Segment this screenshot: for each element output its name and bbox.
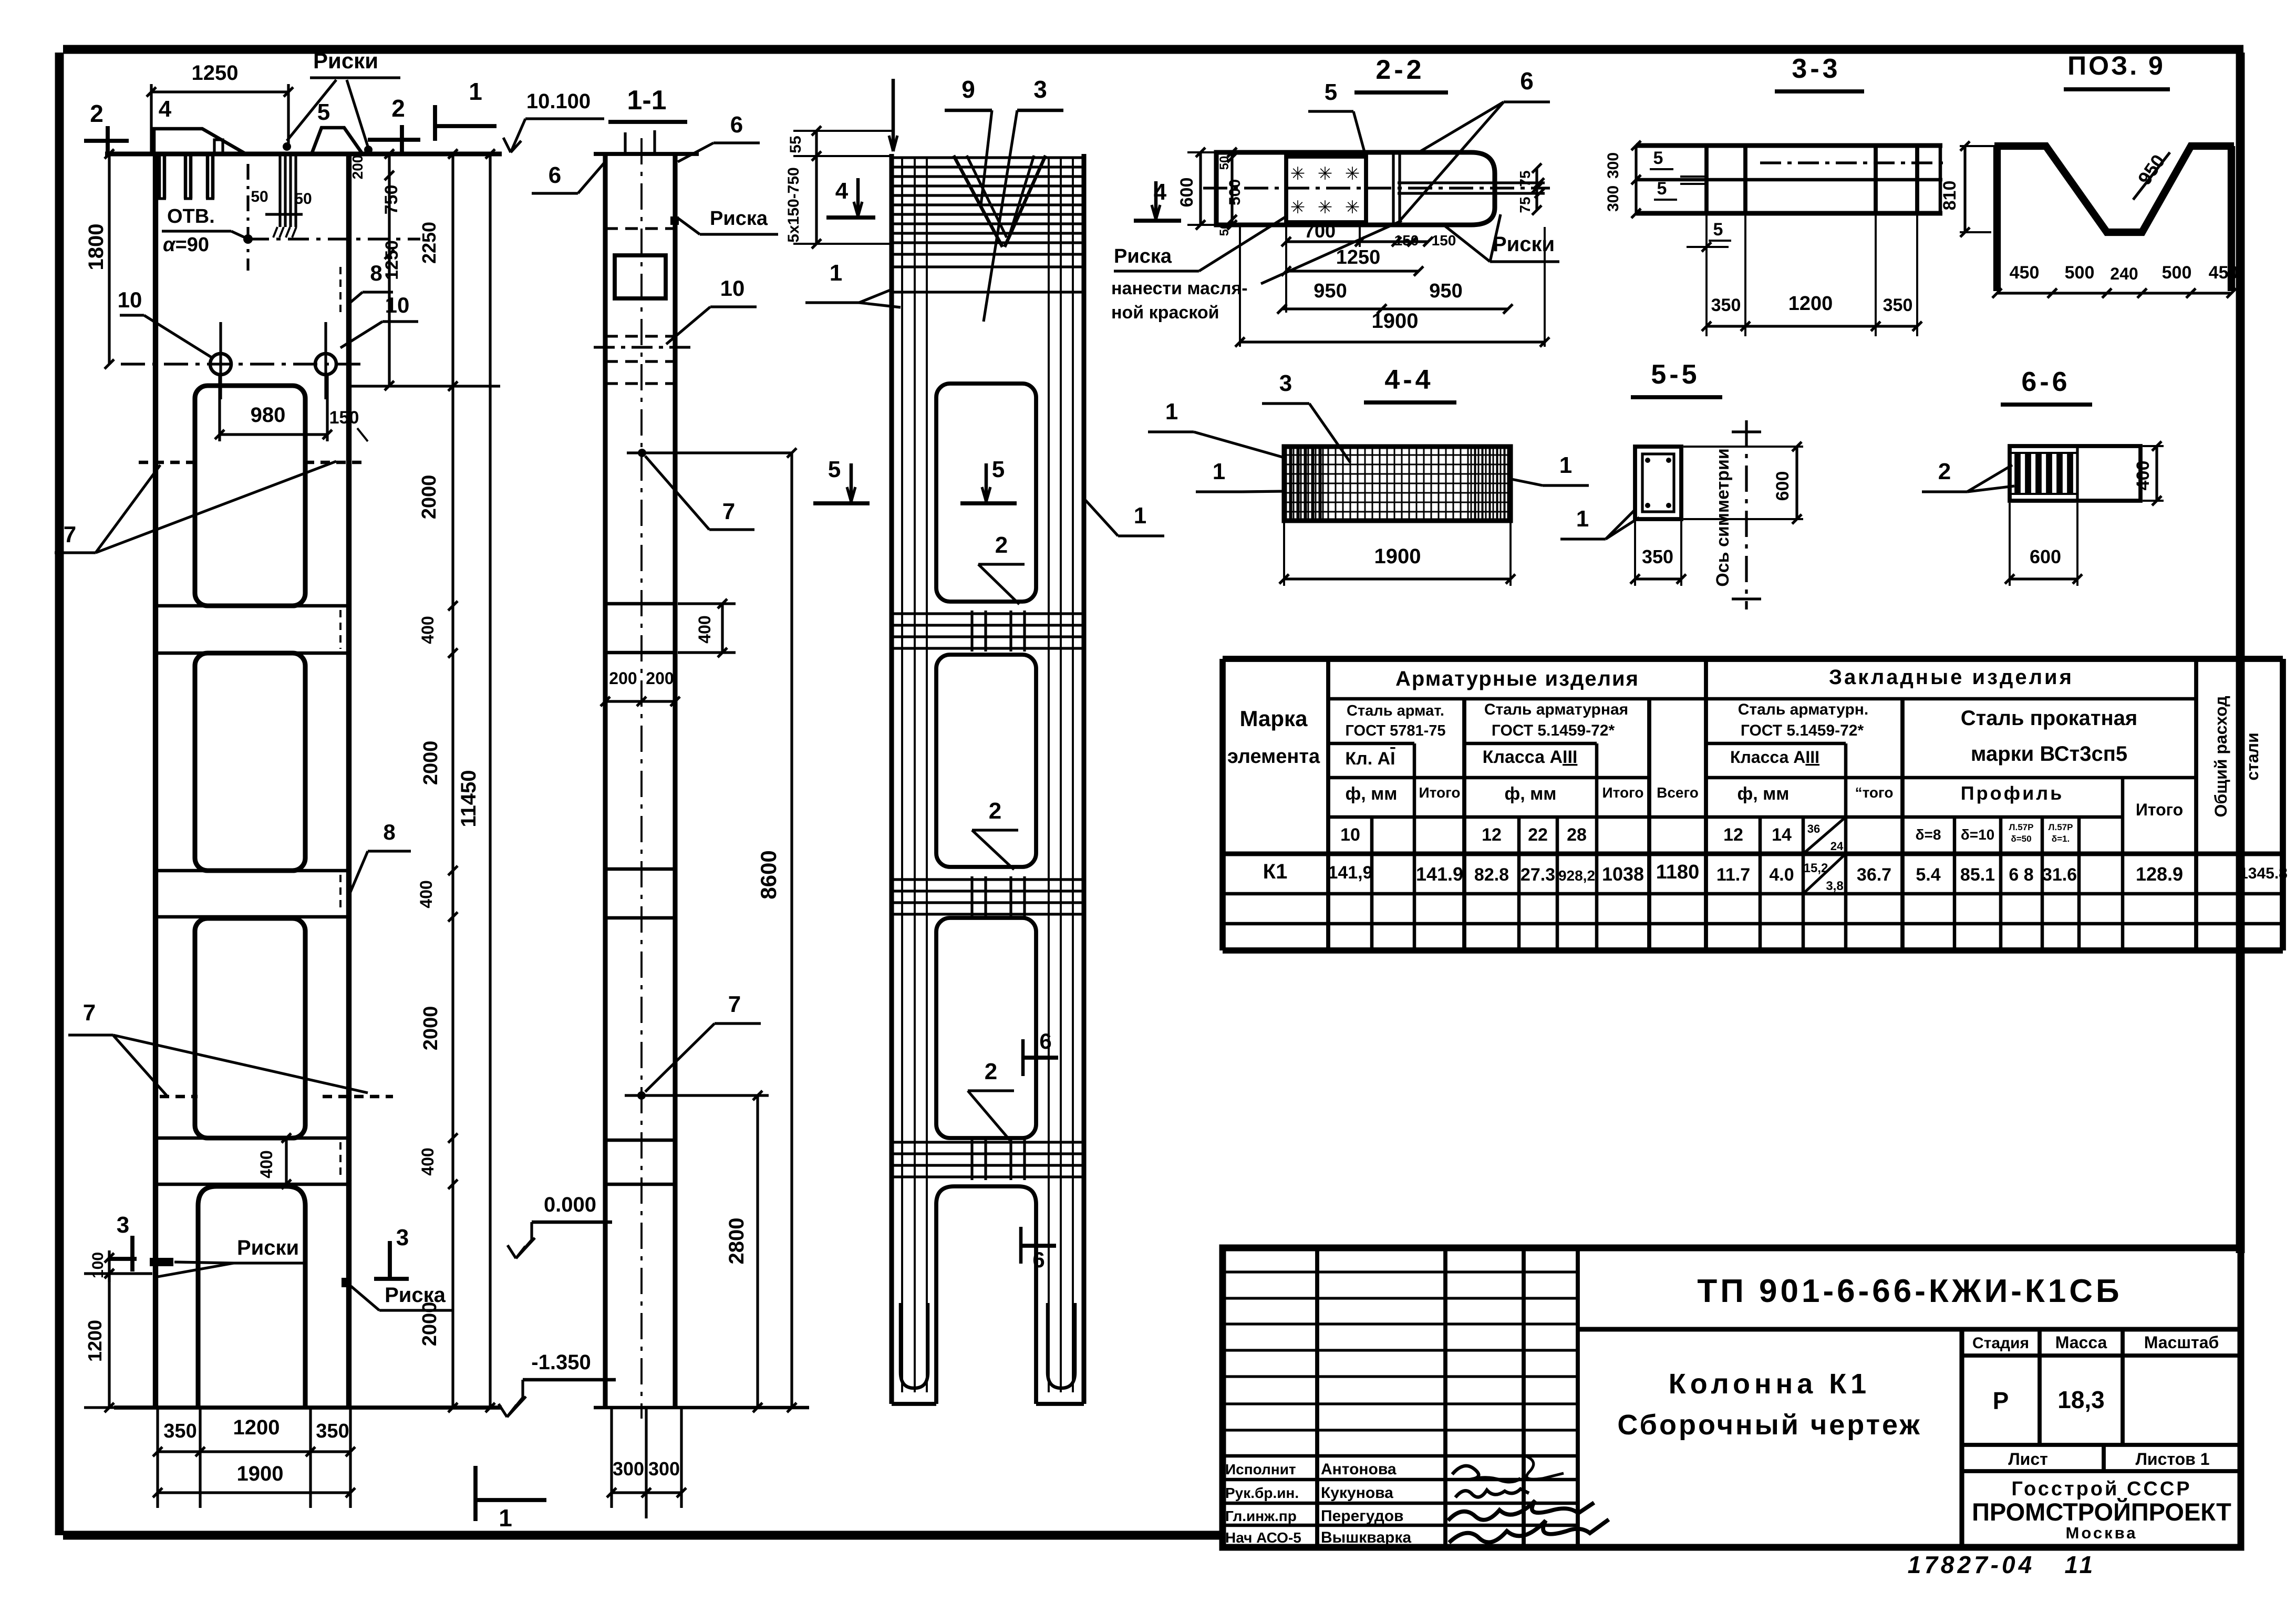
svg-text:200: 200 bbox=[349, 155, 366, 180]
svg-text:1200: 1200 bbox=[84, 1320, 106, 1362]
svg-text:350: 350 bbox=[316, 1420, 349, 1442]
svg-text:1250: 1250 bbox=[1336, 246, 1381, 268]
svg-text:50: 50 bbox=[1217, 156, 1232, 170]
svg-text:1900: 1900 bbox=[1372, 309, 1419, 333]
svg-text:Антонова: Антонова bbox=[1321, 1461, 1397, 1478]
svg-text:✳: ✳ bbox=[1318, 198, 1333, 218]
svg-text:1200: 1200 bbox=[233, 1416, 280, 1439]
svg-text:ОТВ.: ОТВ. bbox=[167, 205, 215, 228]
svg-text:1: 1 bbox=[1165, 399, 1178, 425]
svg-text:9: 9 bbox=[961, 76, 975, 103]
svg-text:7: 7 bbox=[722, 499, 735, 524]
svg-text:2: 2 bbox=[985, 1059, 997, 1084]
svg-text:300: 300 bbox=[648, 1458, 680, 1480]
svg-text:Москва: Москва bbox=[2066, 1524, 2138, 1542]
svg-text:6: 6 bbox=[549, 162, 561, 188]
svg-text:400: 400 bbox=[695, 615, 714, 643]
svg-text:Лист: Лист bbox=[2008, 1450, 2048, 1469]
svg-text:δ=50: δ=50 bbox=[2011, 834, 2031, 844]
svg-text:ПРОМСТРОЙПРОЕКТ: ПРОМСТРОЙПРОЕКТ bbox=[1972, 1498, 2231, 1526]
svg-text:5: 5 bbox=[317, 99, 330, 125]
svg-text:ф, мм: ф, мм bbox=[1737, 784, 1790, 804]
svg-text:Р: Р bbox=[1993, 1387, 2009, 1414]
svg-text:150: 150 bbox=[1432, 232, 1456, 249]
svg-text:22: 22 bbox=[1528, 825, 1548, 845]
svg-text:ф, мм: ф, мм bbox=[1505, 784, 1557, 804]
svg-text:Итого: Итого bbox=[1602, 784, 1644, 801]
svg-text:Вышкварка: Вышкварка bbox=[1321, 1529, 1411, 1546]
svg-text:5: 5 bbox=[828, 457, 841, 482]
svg-text:15,2: 15,2 bbox=[1804, 861, 1828, 875]
svg-text:400: 400 bbox=[2133, 461, 2153, 491]
svg-text:75: 75 bbox=[1517, 197, 1533, 213]
svg-text:8: 8 bbox=[370, 261, 382, 285]
svg-text:ГОСТ 5.1459-72*: ГОСТ 5.1459-72* bbox=[1492, 722, 1615, 739]
svg-text:12: 12 bbox=[1723, 825, 1743, 845]
svg-text:3: 3 bbox=[1279, 370, 1292, 396]
svg-text:Сборочный чертеж: Сборочный чертеж bbox=[1617, 1409, 1921, 1441]
svg-text:18,3: 18,3 bbox=[2057, 1386, 2105, 1413]
svg-text:ф, мм: ф, мм bbox=[1346, 784, 1398, 804]
svg-text:5: 5 bbox=[1325, 79, 1337, 105]
svg-text:6: 6 bbox=[1039, 1029, 1051, 1053]
svg-text:ГОСТ 5.1459-72*: ГОСТ 5.1459-72* bbox=[1741, 722, 1864, 739]
svg-text:✳: ✳ bbox=[1290, 164, 1306, 184]
svg-text:200: 200 bbox=[646, 669, 674, 688]
svg-text:2000: 2000 bbox=[420, 1006, 442, 1051]
svg-text:980: 980 bbox=[251, 404, 286, 427]
svg-text:Риска: Риска bbox=[385, 1284, 446, 1307]
svg-text:Стадия: Стадия bbox=[1972, 1335, 2029, 1352]
svg-text:Закладные изделия: Закладные изделия bbox=[1829, 666, 2074, 689]
svg-text:ной краской: ной краской bbox=[1111, 303, 1219, 323]
svg-text:Риски: Риски bbox=[313, 48, 378, 73]
svg-text:Риска: Риска bbox=[710, 208, 768, 230]
svg-text:Исполнит: Исполнит bbox=[1225, 1461, 1296, 1477]
svg-text:Рук.бр.ин.: Рук.бр.ин. bbox=[1225, 1485, 1299, 1501]
svg-text:10: 10 bbox=[720, 276, 745, 301]
svg-text:2000: 2000 bbox=[420, 741, 442, 785]
svg-text:-1.350: -1.350 bbox=[531, 1351, 591, 1374]
svg-text:Гл.инж.пр: Гл.инж.пр bbox=[1225, 1508, 1297, 1524]
svg-text:1180: 1180 bbox=[1656, 861, 1699, 883]
svg-text:стали: стали bbox=[2243, 732, 2262, 780]
svg-text:11.7: 11.7 bbox=[1716, 865, 1750, 885]
svg-text:750: 750 bbox=[381, 185, 401, 215]
svg-text:Масштаб: Масштаб bbox=[2144, 1333, 2219, 1352]
svg-text:Сталь арматурн.: Сталь арматурн. bbox=[1738, 701, 1868, 718]
svg-text:8600: 8600 bbox=[756, 850, 781, 899]
svg-text:5: 5 bbox=[992, 457, 1005, 482]
svg-text:55: 55 bbox=[787, 136, 804, 153]
svg-text:1900: 1900 bbox=[1374, 545, 1421, 568]
svg-text:3: 3 bbox=[396, 1225, 409, 1250]
svg-text:14: 14 bbox=[1772, 825, 1792, 845]
svg-text:элемента: элемента bbox=[1227, 746, 1320, 768]
svg-text:Сталь прокатная: Сталь прокатная bbox=[1961, 707, 2137, 730]
svg-text:5: 5 bbox=[1713, 220, 1723, 240]
svg-text:7: 7 bbox=[83, 1000, 96, 1026]
svg-text:1: 1 bbox=[1134, 503, 1146, 529]
svg-text:1: 1 bbox=[830, 260, 842, 286]
svg-text:0.000: 0.000 bbox=[544, 1193, 596, 1216]
svg-text:α=90: α=90 bbox=[163, 234, 209, 256]
svg-text:17827-04 11: 17827-04 11 bbox=[1908, 1551, 2096, 1578]
svg-text:1: 1 bbox=[469, 78, 482, 105]
svg-text:6: 6 bbox=[730, 112, 743, 138]
svg-text:12: 12 bbox=[1482, 825, 1502, 845]
svg-text:400: 400 bbox=[418, 1147, 437, 1175]
svg-text:Масса: Масса bbox=[2055, 1333, 2107, 1352]
svg-text:4-4: 4-4 bbox=[1384, 365, 1433, 395]
svg-text:Риски: Риски bbox=[237, 1236, 299, 1259]
svg-text:600: 600 bbox=[2030, 546, 2061, 567]
svg-text:6: 6 bbox=[1032, 1247, 1044, 1272]
svg-text:400: 400 bbox=[417, 880, 436, 908]
svg-text:10: 10 bbox=[118, 287, 142, 312]
svg-text:Риска: Риска bbox=[1114, 245, 1172, 267]
svg-text:600: 600 bbox=[1177, 178, 1197, 208]
svg-text:928,2: 928,2 bbox=[1558, 867, 1595, 884]
svg-text:500: 500 bbox=[2162, 263, 2192, 283]
svg-text:δ=8: δ=8 bbox=[1916, 826, 1941, 843]
svg-text:ТП 901-6-66-КЖИ-К1СБ: ТП 901-6-66-КЖИ-К1СБ bbox=[1697, 1273, 2122, 1309]
svg-text:1: 1 bbox=[1213, 459, 1225, 484]
svg-text:2: 2 bbox=[1938, 459, 1951, 484]
svg-text:2: 2 bbox=[90, 100, 104, 127]
svg-text:2: 2 bbox=[391, 95, 405, 122]
svg-text:50: 50 bbox=[294, 190, 312, 208]
svg-text:1250: 1250 bbox=[382, 240, 402, 280]
svg-text:Ось симметрии: Ось симметрии bbox=[1713, 448, 1733, 587]
svg-text:7: 7 bbox=[728, 991, 741, 1017]
svg-text:ГОСТ 5781-75: ГОСТ 5781-75 bbox=[1345, 722, 1445, 739]
svg-text:350: 350 bbox=[163, 1420, 196, 1442]
svg-text:6 8: 6 8 bbox=[2009, 865, 2033, 885]
svg-text:400: 400 bbox=[257, 1150, 276, 1178]
svg-text:5: 5 bbox=[1657, 179, 1667, 199]
svg-text:36: 36 bbox=[1807, 822, 1820, 835]
svg-text:2: 2 bbox=[989, 798, 1001, 824]
svg-text:7: 7 bbox=[64, 522, 76, 547]
svg-text:Нач АСО-5: Нач АСО-5 bbox=[1225, 1529, 1301, 1546]
svg-text:Арматурные изделия: Арматурные изделия bbox=[1395, 667, 1639, 690]
svg-text:950: 950 bbox=[1429, 280, 1462, 302]
svg-text:3-3: 3-3 bbox=[1792, 54, 1840, 84]
svg-text:3: 3 bbox=[117, 1212, 129, 1238]
svg-text:Колонна К1: Колонна К1 bbox=[1669, 1368, 1870, 1400]
svg-text:✳: ✳ bbox=[1290, 198, 1306, 218]
svg-text:Кукунова: Кукунова bbox=[1321, 1484, 1393, 1502]
svg-text:200: 200 bbox=[609, 669, 637, 688]
svg-text:28: 28 bbox=[1567, 825, 1587, 845]
svg-text:810: 810 bbox=[1940, 181, 1960, 211]
svg-text:6: 6 bbox=[1520, 67, 1534, 95]
svg-text:5-5: 5-5 bbox=[1651, 359, 1700, 390]
svg-text:5.4: 5.4 bbox=[1916, 865, 1940, 885]
svg-text:нанести масля-: нанести масля- bbox=[1111, 278, 1248, 298]
svg-text:2250: 2250 bbox=[418, 222, 440, 264]
svg-text:4.0: 4.0 bbox=[1769, 865, 1794, 885]
svg-text:Всего: Всего bbox=[1657, 784, 1699, 801]
svg-text:128.9: 128.9 bbox=[2136, 863, 2183, 885]
svg-text:2000: 2000 bbox=[419, 1302, 441, 1347]
svg-text:50: 50 bbox=[251, 188, 268, 205]
svg-text:Профиль: Профиль bbox=[1961, 782, 2064, 804]
svg-text:1: 1 bbox=[1576, 506, 1589, 532]
svg-text:1345.8: 1345.8 bbox=[2239, 865, 2288, 882]
svg-text:δ=1.: δ=1. bbox=[2052, 834, 2070, 844]
svg-text:2-2: 2-2 bbox=[1375, 55, 1424, 85]
svg-text:4: 4 bbox=[159, 96, 172, 122]
svg-text:350: 350 bbox=[1883, 295, 1913, 315]
svg-text:350: 350 bbox=[1642, 546, 1673, 567]
svg-text:1250: 1250 bbox=[192, 61, 239, 85]
svg-text:ПОЗ. 9: ПОЗ. 9 bbox=[2067, 51, 2165, 80]
svg-text:141,9: 141,9 bbox=[1328, 863, 1372, 883]
svg-text:6-6: 6-6 bbox=[2021, 367, 2070, 397]
svg-text:1900: 1900 bbox=[237, 1462, 284, 1485]
svg-text:3,8: 3,8 bbox=[1826, 879, 1843, 893]
svg-text:1200: 1200 bbox=[1788, 293, 1833, 315]
svg-text:1-1: 1-1 bbox=[627, 85, 666, 116]
svg-text:8: 8 bbox=[383, 820, 395, 844]
svg-text:950: 950 bbox=[1314, 280, 1347, 302]
svg-text:Л.57Р: Л.57Р bbox=[2049, 822, 2073, 832]
svg-text:31.6: 31.6 bbox=[2042, 865, 2077, 885]
svg-text:10.100: 10.100 bbox=[526, 90, 591, 113]
svg-text:Сталь арматурная: Сталь арматурная bbox=[1484, 701, 1628, 718]
svg-text:✳: ✳ bbox=[1318, 164, 1333, 184]
svg-text:1: 1 bbox=[499, 1504, 512, 1532]
svg-text:Итого: Итого bbox=[2136, 800, 2183, 819]
svg-text:Класса АIII: Класса АIII bbox=[1730, 748, 1819, 767]
svg-text:5х150-750: 5х150-750 bbox=[785, 167, 802, 242]
svg-text:✳: ✳ bbox=[1345, 198, 1360, 218]
svg-text:150: 150 bbox=[1394, 232, 1419, 249]
svg-text:2000: 2000 bbox=[418, 475, 440, 520]
svg-text:300: 300 bbox=[1605, 185, 1622, 212]
svg-text:85.1: 85.1 bbox=[1960, 865, 1995, 885]
svg-text:300: 300 bbox=[1605, 152, 1622, 179]
svg-text:Л.57Р: Л.57Р bbox=[2009, 822, 2034, 832]
svg-text:“того: “того bbox=[1855, 784, 1894, 801]
svg-text:Сталь армат.: Сталь армат. bbox=[1347, 702, 1444, 719]
svg-text:500: 500 bbox=[1226, 179, 1244, 205]
svg-text:Перегудов: Перегудов bbox=[1321, 1507, 1404, 1525]
svg-text:δ=10: δ=10 bbox=[1961, 826, 1994, 843]
svg-text:400: 400 bbox=[418, 616, 437, 644]
svg-text:24: 24 bbox=[1830, 840, 1844, 853]
svg-text:1: 1 bbox=[1559, 452, 1572, 478]
svg-text:141.9: 141.9 bbox=[1416, 863, 1463, 885]
svg-text:К1: К1 bbox=[1263, 860, 1288, 883]
svg-text:450: 450 bbox=[2010, 263, 2040, 283]
svg-text:4: 4 bbox=[835, 178, 849, 204]
svg-text:600: 600 bbox=[1773, 471, 1793, 501]
svg-text:500: 500 bbox=[2065, 263, 2095, 283]
svg-text:2800: 2800 bbox=[725, 1218, 748, 1265]
svg-text:240: 240 bbox=[2110, 264, 2138, 283]
svg-text:1800: 1800 bbox=[85, 224, 108, 271]
svg-text:350: 350 bbox=[1711, 295, 1741, 315]
svg-text:Госстрой СССР: Госстрой СССР bbox=[2011, 1478, 2191, 1500]
svg-text:450: 450 bbox=[2209, 263, 2239, 283]
svg-text:11450: 11450 bbox=[457, 770, 480, 827]
svg-text:Общий расход: Общий расход bbox=[2211, 696, 2230, 817]
svg-text:82.8: 82.8 bbox=[1474, 865, 1509, 885]
svg-text:Класса АIII: Класса АIII bbox=[1483, 747, 1578, 767]
svg-text:✳: ✳ bbox=[1345, 164, 1360, 184]
svg-text:150: 150 bbox=[329, 408, 359, 428]
svg-text:2: 2 bbox=[995, 532, 1008, 558]
svg-text:3: 3 bbox=[1033, 76, 1047, 103]
svg-text:Кл. АI: Кл. АI bbox=[1345, 749, 1395, 769]
svg-text:50: 50 bbox=[1217, 222, 1232, 236]
svg-text:300: 300 bbox=[613, 1458, 644, 1480]
svg-text:Листов 1: Листов 1 bbox=[2135, 1450, 2209, 1469]
svg-text:Итого: Итого bbox=[1419, 784, 1461, 801]
svg-text:Марка: Марка bbox=[1240, 706, 1308, 731]
svg-text:10: 10 bbox=[1340, 825, 1360, 845]
svg-text:марки ВСт3сп5: марки ВСт3сп5 bbox=[1971, 742, 2127, 766]
svg-text:75: 75 bbox=[1517, 170, 1533, 187]
svg-text:27.3: 27.3 bbox=[1521, 865, 1555, 885]
svg-text:5: 5 bbox=[1653, 148, 1663, 168]
svg-text:36.7: 36.7 bbox=[1857, 865, 1891, 885]
svg-text:1038: 1038 bbox=[1602, 863, 1644, 885]
svg-text:700: 700 bbox=[1304, 220, 1336, 242]
